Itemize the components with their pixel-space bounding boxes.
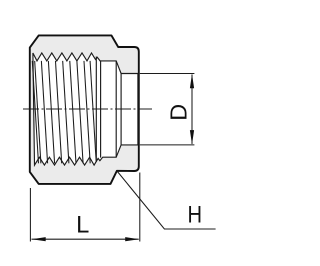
dimension D arrow up xyxy=(190,74,194,89)
dimension L arrow right xyxy=(125,237,139,241)
nut body silhouette xyxy=(30,35,139,184)
counterbore chamfer cone edge verticals xyxy=(115,61,117,157)
svg-text:L: L xyxy=(76,212,89,238)
dimension L line xyxy=(32,238,139,240)
dimension L extension line left xyxy=(29,188,31,242)
dimension D line xyxy=(191,75,193,144)
dimension L arrow left xyxy=(32,237,46,241)
dimension D extension line bottom xyxy=(140,144,195,146)
dimension D arrow down xyxy=(190,130,194,145)
thread flank lines xyxy=(32,61,96,163)
leader line for H xyxy=(117,171,216,229)
bore cavity with thread zigzag profile xyxy=(33,53,138,165)
svg-text:D: D xyxy=(166,104,192,121)
dimension L extension line right xyxy=(139,173,141,242)
dimension D extension line top xyxy=(140,73,195,75)
thread runout verticals xyxy=(95,57,97,162)
centerline xyxy=(23,108,152,110)
svg-text:H: H xyxy=(188,201,203,228)
